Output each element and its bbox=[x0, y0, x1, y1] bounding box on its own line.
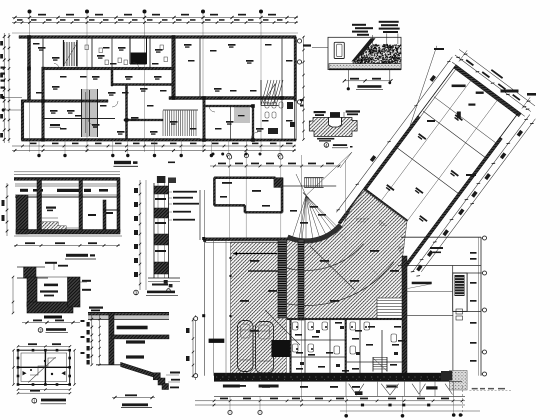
door arc a4 bbox=[251, 132, 258, 139]
wing extension line beyond right corner bbox=[522, 97, 530, 108]
D-pit interior text bbox=[44, 284, 58, 287]
P1 bottom-right junction blobs bbox=[287, 102, 293, 109]
D-gravel caption with underline bbox=[357, 85, 381, 88]
wall P1 step joint bbox=[22, 100, 109, 103]
wall P1 dark room walls around black block bbox=[129, 37, 131, 64]
D-square top dimension bbox=[18, 345, 70, 347]
P2 wall step vertical bbox=[244, 205, 246, 212]
top dimension line row 2 bbox=[12, 22, 298, 24]
stair S5 small treads bbox=[234, 108, 250, 122]
dimension text row 2 bbox=[17, 19, 23, 21]
wall P1 left-lower exterior bbox=[21, 100, 24, 140]
extension line above top wall bbox=[12, 32, 298, 34]
right vertical x478.5 thin bbox=[478, 237, 480, 376]
wing top dimension line 1 bbox=[455, 55, 531, 112]
fan arc outer outline bbox=[286, 227, 342, 244]
car outline 2 bbox=[256, 322, 274, 374]
wall P1 interior horizontal h1 bbox=[43, 67, 174, 70]
D-gravel label leader lines bbox=[372, 35, 374, 46]
D-gravel inner frame (drain channel) bbox=[334, 42, 344, 58]
labels under beam bbox=[223, 385, 240, 388]
D1 band text labels bbox=[57, 189, 81, 192]
shaft rect bbox=[453, 273, 467, 311]
wing left wall thin upper part bbox=[418, 66, 455, 116]
beam white speckle dashes bbox=[216, 376, 450, 378]
column blobs at wall junctions bbox=[27, 35, 31, 39]
D1 top slab lines bbox=[14, 171, 120, 173]
P2 stair comb S6 bbox=[304, 178, 322, 188]
D1 bottom dimension line bbox=[14, 245, 120, 247]
corridor door V mark 1 bbox=[349, 384, 364, 395]
P2 upper room texts bbox=[222, 182, 232, 184]
bottom grid bubbles of P1 bbox=[227, 153, 231, 157]
fan label bars bbox=[356, 218, 369, 220]
wall P1 interior vertical v3 bbox=[111, 70, 113, 86]
bottom dimension line 1 bbox=[195, 400, 465, 402]
D1 bottom slab line bbox=[14, 235, 122, 237]
car outline 1 bbox=[238, 321, 254, 372]
wing wall label bars near band bbox=[452, 85, 466, 88]
D-ramp top slab hatch strip bbox=[88, 313, 169, 315]
D-tall bottom dark squares bbox=[164, 280, 168, 283]
shaft connector vertical bbox=[452, 266, 454, 274]
garage left vertical lines bbox=[204, 238, 206, 375]
wall P1 bottom exterior right part bbox=[200, 139, 296, 141]
D-square left dimension bbox=[13, 350, 15, 384]
bottom grid bubbles bbox=[228, 410, 232, 414]
corridor small marks bbox=[238, 385, 246, 387]
wing room text marks bbox=[455, 114, 463, 121]
D-tall hatched wall segment 3 bbox=[154, 234, 169, 245]
garage left square ticks bbox=[202, 237, 205, 240]
wall P1 interior vertical v7 bbox=[252, 106, 254, 140]
wing right dimension line 1 bbox=[413, 115, 530, 272]
D-pit upper leaders and text bbox=[45, 262, 57, 264]
wall P1 top-band partition x112 bbox=[111, 37, 113, 69]
white room upper line bbox=[407, 291, 453, 293]
D-ramp sloped hatched band bbox=[121, 362, 154, 377]
hatch boundary tick blobs bbox=[229, 257, 231, 259]
D-ramp left dimension columns bbox=[91, 315, 93, 365]
wing top dimension line 2 bbox=[459, 49, 535, 106]
stair S3 treads (lower-middle stair) bbox=[163, 111, 196, 137]
door arc a3 bbox=[209, 106, 215, 112]
D1 upper band lines bbox=[15, 183, 120, 185]
diagonal wing plan group (rotated) bbox=[317, 34, 545, 280]
D4 label bars above-right bbox=[346, 110, 360, 112]
D-ramp top-left label bbox=[89, 307, 103, 309]
P2 room horizontal y357 bbox=[291, 356, 346, 358]
P2 room texts bbox=[295, 334, 302, 336]
outer arc r75 over hatch bbox=[283, 244, 364, 271]
D-pit inner lines bbox=[37, 276, 68, 278]
D-square stepped polyline bbox=[30, 358, 56, 375]
P2 stair S8 bbox=[373, 358, 387, 370]
D1 left dimension column bbox=[6, 183, 8, 236]
wing top exterior wall (hatched) bbox=[454, 65, 522, 117]
shaft dark stair bbox=[455, 275, 465, 296]
large diagonal-hatched floor region bbox=[231, 190, 408, 376]
P2 left boundary thin bbox=[199, 190, 201, 240]
wall P1 top-band partition x92 bbox=[91, 37, 93, 69]
wall P1 bottom exterior bbox=[22, 139, 201, 142]
wing longitudinal grid line s53 bbox=[382, 99, 499, 255]
D-gravel second reference with dot bbox=[389, 70, 391, 82]
fan thick curved wall (arc) bbox=[288, 225, 341, 241]
hatch leader line diag bbox=[310, 246, 355, 290]
fixture marks top rooms bbox=[85, 45, 88, 50]
bottom dimension line 2 with square ticks bbox=[195, 404, 465, 406]
bottom grid dots bbox=[344, 414, 348, 418]
plan margin marks near x195 bbox=[192, 318, 194, 378]
corridor door V mark 3 bbox=[412, 384, 426, 394]
D-square inner frame bbox=[21, 353, 67, 382]
D-square corner tick squares bbox=[17, 349, 20, 352]
D1 bottom slab hatched bbox=[16, 230, 120, 235]
stair S1 diagonal bbox=[65, 44, 77, 64]
bottom dimension texts bbox=[220, 398, 228, 400]
wing corner note text (global) bbox=[527, 93, 536, 96]
D-gravel stipple fill (gravel) bbox=[352, 45, 401, 66]
D-pit bottom dimension bbox=[22, 322, 80, 324]
door arc a5 bbox=[54, 64, 59, 69]
D-ramp right leaders bbox=[166, 374, 179, 376]
left grid dots of P1 bbox=[2, 96, 5, 99]
P2 bottom wall of upper rooms (thick) bbox=[205, 238, 288, 241]
wing right wall thin top part bbox=[500, 113, 518, 137]
right grid bubbles column bbox=[483, 236, 487, 240]
P2 wall mid horizontal bbox=[245, 211, 282, 213]
D-gravel label bars right group bbox=[379, 21, 399, 23]
wing right dimension line 2 bbox=[421, 119, 535, 272]
big white room borders right bbox=[407, 315, 453, 317]
D4 section number circle 4 bbox=[324, 143, 329, 148]
D1 caption with underline bbox=[66, 254, 88, 257]
wing longitudinal grid line s20 bbox=[355, 79, 472, 235]
P2 wall left of room A bbox=[213, 178, 215, 206]
corridor partition verticals bbox=[345, 381, 347, 396]
D-pit top lines bbox=[17, 266, 45, 268]
D-pit left wall bbox=[27, 277, 37, 307]
gray textured block right of beam bbox=[449, 371, 467, 391]
P2 room horizontal y340 bbox=[291, 339, 346, 341]
shaft lines y311 bbox=[453, 310, 481, 312]
bottom grid stems bbox=[229, 396, 231, 413]
vertical ladder wall 1 in hatch bbox=[278, 240, 287, 318]
corridor line y396.3 bbox=[214, 395, 465, 397]
hatch leader arrow 1 bbox=[237, 253, 277, 255]
faint dashed note right bbox=[469, 390, 512, 392]
D1 right wall 1 bbox=[79, 196, 83, 232]
hatch leader line diag 2 bbox=[265, 310, 300, 345]
wall P1 left-upper exterior bbox=[28, 36, 31, 101]
annex interior text bbox=[430, 247, 443, 249]
D1 mid vertical wall bbox=[37, 196, 42, 232]
thick black beam bottom bbox=[214, 373, 453, 381]
right column tick texts bbox=[470, 252, 477, 254]
corridor door V mark 2 bbox=[381, 384, 399, 395]
annex bottom line y265 bbox=[398, 265, 481, 267]
D-tall small circle in caption bbox=[167, 289, 171, 293]
P2 wall right vertical of upper rooms bbox=[281, 178, 283, 213]
wing transverse partition t55 thin bbox=[423, 111, 486, 158]
bottom dimension line row 1 of P1 bbox=[12, 145, 296, 147]
D1 interior room text bbox=[46, 207, 56, 209]
bottom dimension text row P1 bbox=[30, 143, 37, 145]
D4 grate dark mark bbox=[330, 112, 340, 117]
hatch region inner texts bbox=[250, 260, 259, 262]
stair S2 arrow bbox=[85, 92, 87, 133]
D4 drain channel white notch bbox=[329, 118, 342, 128]
wall P1 top-band partition x43 bbox=[42, 37, 44, 69]
D-gravel dark sloped wedge bbox=[351, 38, 375, 61]
wing left dimension line full bbox=[336, 57, 452, 213]
D1 interior step polyline bbox=[42, 222, 74, 231]
garage label black bar bbox=[209, 339, 225, 343]
wing transverse partition t100 thin bbox=[396, 147, 459, 194]
D4 underline bars below bbox=[317, 138, 334, 140]
left edge tiny row labels bbox=[1, 67, 6, 69]
hatch leader arrow 2 bbox=[248, 270, 283, 272]
D-tall hatched wall segment 1 bbox=[154, 186, 169, 194]
D-pit right wall bbox=[68, 277, 81, 307]
D-ramp vertical hatched column bbox=[109, 313, 114, 365]
D1 wall stub right1 bbox=[79, 178, 83, 196]
D1 top slab hatched strip bbox=[14, 178, 120, 180]
P2 left boundary dot bbox=[203, 239, 206, 242]
D-gravel vertical reference line with dot bbox=[347, 70, 349, 89]
annex top line y237 bbox=[401, 236, 481, 238]
bottom dimension line row 2 of P1 bbox=[12, 150, 296, 152]
D-ramp band text bbox=[117, 326, 148, 330]
D-square bottom dimensions bbox=[18, 389, 70, 391]
top dimension line row 1 bbox=[12, 17, 298, 19]
D-pit left dim column bbox=[12, 277, 14, 313]
D-ramp left outer text bars bbox=[81, 320, 85, 322]
P2 grid verticals thin bbox=[229, 156, 231, 240]
wall P1 interior horizontal h6 bbox=[124, 119, 163, 121]
D-pit bottom slab bbox=[27, 302, 73, 313]
D-tall hatched wall segment 4 bbox=[154, 262, 169, 274]
D4 left leader marks bbox=[300, 99, 304, 101]
D-gravel bottom bed strip bbox=[329, 64, 401, 69]
P2 room fixtures row bbox=[293, 322, 299, 330]
fan thin parallel arc bbox=[286, 229, 343, 246]
wall P1 interior vertical v9 thin bbox=[230, 106, 232, 139]
grid bubbles top row (filled) bbox=[28, 10, 32, 14]
white room note bar with leader bbox=[412, 282, 432, 285]
stair S4 escalator upper right bbox=[261, 80, 283, 106]
P2 room horizontal y362 bbox=[346, 361, 406, 363]
wing end note bars bbox=[434, 48, 444, 50]
D-square section arrow right bbox=[61, 371, 65, 375]
D1 wall stub right2 bbox=[117, 178, 120, 196]
D-gravel dimension line below bbox=[344, 80, 391, 82]
plan P2 group: lower-right main floor plan bbox=[194, 152, 513, 418]
detail D-pit: sump pit section bbox=[12, 262, 91, 333]
P2 room extra fixture dots bbox=[296, 326, 298, 328]
P2 wall thin upper right bbox=[282, 185, 336, 187]
door arc a6 bbox=[112, 101, 118, 107]
plan P1 group: upper-left basement floor plan bbox=[0, 10, 305, 167]
D1 wall stub top left bbox=[37, 178, 42, 196]
wing left dimension texts bbox=[430, 75, 436, 82]
P2 wall top exterior bbox=[214, 177, 275, 179]
P2 room vertical x290.5 bbox=[290, 319, 292, 376]
P2 room fixture marks dark bbox=[316, 330, 320, 333]
D-pit right leader text bbox=[82, 280, 91, 282]
D-square interior dots bbox=[44, 360, 46, 362]
plan P1 title text with underline bbox=[114, 161, 131, 164]
D1 extra interior lines bbox=[42, 217, 58, 219]
wing left wall hatched lower part bbox=[338, 116, 420, 224]
corridor boxed label bbox=[386, 385, 397, 388]
wall P1 interior vertical v1 bbox=[42, 67, 45, 139]
D1 mid horizontal wall right bbox=[103, 209, 120, 211]
dashed vertical right bbox=[462, 386, 464, 418]
P2 top grid bubbles bbox=[228, 155, 232, 159]
wall P1 interior vertical v6 bbox=[203, 98, 205, 141]
D-ramp top slab lines bbox=[88, 312, 169, 314]
P2 top dimension line bbox=[210, 165, 340, 167]
corridor black fixture bbox=[355, 391, 363, 395]
D-square section arrow left bbox=[23, 371, 27, 375]
P2 room vertical x360 bbox=[359, 319, 361, 376]
wall P1 top exterior bbox=[19, 36, 296, 39]
D-tall section circle 3 and caption bbox=[134, 290, 139, 295]
P2 room vertical x405.7 hatched boundary wall bbox=[402, 256, 407, 376]
dimension text row 1 bbox=[38, 14, 46, 16]
P2 room vertical x382 bbox=[381, 330, 383, 376]
small tick rows inside plan bbox=[94, 67, 96, 69]
detail D4: drainage trench section bbox=[300, 99, 360, 148]
fan radial lines bbox=[306, 196, 340, 230]
right boundary vertical x481 bbox=[480, 237, 482, 376]
P2 wall room A bottom bbox=[214, 204, 244, 206]
dark block left in gray zone bbox=[441, 371, 452, 381]
detail D-gravel: top-right wall/drainage section bbox=[303, 21, 402, 91]
D-ramp mid text 2 bbox=[126, 355, 144, 358]
P2 room vertical x345.7 (thick) bbox=[345, 319, 347, 376]
detail D-tall: narrow wall section bbox=[134, 176, 199, 295]
D-square mid horizontal wall bbox=[18, 366, 70, 368]
outer arc r110 over hatch bbox=[287, 262, 394, 306]
wall P1 interior vertical v4 (main) bbox=[172, 38, 176, 98]
detail D1: large basement wall section bbox=[2, 172, 123, 259]
D-square mid vertical wall bbox=[44, 350, 46, 384]
D-square section circle 1 and caption bbox=[32, 398, 37, 403]
left dimension column of plan P1 bbox=[3, 33, 5, 143]
horizontal-hatch band lower right of fan bbox=[377, 298, 406, 319]
wing top dimension texts bbox=[466, 59, 474, 66]
shaft lower small boxes bbox=[456, 309, 463, 314]
D-pit black bar below bbox=[44, 316, 62, 319]
D1 right wall 3 bbox=[117, 196, 120, 232]
D-square outer frame bbox=[18, 350, 70, 384]
wall P1 right border lower bbox=[294, 101, 296, 140]
diag leader to fan vertex bbox=[306, 152, 352, 196]
D-ramp stepped hatch going down bbox=[153, 373, 160, 380]
D1 right wall 2 bbox=[103, 200, 106, 230]
wall P1 interior horizontal h4 bbox=[112, 84, 174, 86]
D-tall dark caps at top bbox=[157, 176, 166, 183]
D-ramp caption with underline bbox=[122, 403, 148, 406]
P2 top dimension texts bbox=[218, 163, 226, 165]
P2 hatched column block bbox=[274, 178, 282, 188]
D4 label bars above-left bbox=[314, 111, 326, 113]
vertical ladder wall 2 in hatch bbox=[298, 240, 304, 320]
wing right wall end triangle marker bbox=[397, 247, 405, 255]
black equipment square in garage bbox=[271, 340, 291, 357]
black equipment block in plan P1 bbox=[131, 53, 146, 65]
D1 step hatch under bbox=[42, 222, 74, 234]
P2 rooms top wall y319 bbox=[287, 318, 406, 320]
D-tall hatched wall segment 2 bbox=[154, 208, 169, 218]
D-tall bottom lines bbox=[148, 277, 180, 279]
P2 room vertical x330 bbox=[329, 319, 331, 376]
D-tall inner texts bbox=[155, 198, 166, 200]
corridor door diag mark 4 bbox=[445, 384, 453, 395]
D-square diagonal line bbox=[28, 357, 55, 382]
wall P1 interior vertical v8 thin bbox=[281, 37, 283, 139]
corridor line y381.5 bbox=[214, 380, 462, 382]
wing right dimension texts bbox=[517, 130, 523, 137]
D-pit section circle 2 and caption bbox=[38, 328, 43, 333]
D-ramp bottom dimension bbox=[112, 397, 155, 399]
bottom grid dots of P1 bbox=[37, 154, 40, 157]
D-tall wall strip outlines bbox=[153, 183, 155, 278]
right dimension column of plan P1 bbox=[303, 36, 305, 140]
D4 caption dots and underline bbox=[333, 144, 347, 146]
stair S4 triangle bbox=[263, 84, 275, 103]
extra room text marks P1 bbox=[33, 43, 40, 45]
wall P1 interior horizontal h5 bbox=[204, 105, 253, 107]
fan leader arc small bbox=[340, 152, 352, 168]
wall P1 interior horizontal h7 bbox=[43, 118, 115, 120]
stair S2 treads (main stair) bbox=[82, 90, 98, 136]
D-tall right leader lines and texts bbox=[169, 191, 173, 193]
fan arc inner outline bbox=[288, 224, 338, 239]
detail D-ramp: ramp wall section bbox=[81, 307, 181, 408]
wall P1 interior horizontal h2 (main) bbox=[169, 97, 294, 100]
stair S1 treads (upper-left stair) bbox=[65, 42, 77, 66]
wall P1 interior vertical v5 thin bbox=[199, 37, 201, 98]
D1 left earth hatch wall bbox=[16, 195, 28, 234]
wall P1 interior vertical v10 bbox=[126, 85, 128, 140]
D-ramp hatched floor strip bbox=[111, 335, 169, 339]
wall P1 top-band partition x150 bbox=[149, 37, 151, 69]
wall P1 right border upper thick bbox=[294, 37, 296, 101]
corridor black bar label bbox=[426, 386, 437, 389]
left dim of garage zone bbox=[195, 315, 197, 380]
bottom dimension line 3 bbox=[340, 410, 480, 412]
P1 bottom-right room fixtures bbox=[265, 102, 269, 108]
fan long radial line 1 bbox=[306, 196, 381, 279]
D-gravel leader from left bbox=[312, 46, 328, 48]
D-square right dimension bbox=[74, 350, 76, 384]
wing transverse partition t153 (hatched, partial) bbox=[364, 189, 408, 223]
door arc a2 bbox=[133, 63, 139, 69]
P2 top grid dots bbox=[212, 153, 215, 156]
door arc a1 bbox=[88, 119, 95, 126]
wing transverse partition t37 thin bbox=[434, 97, 497, 144]
D-ramp mid text 1 bbox=[126, 340, 145, 343]
wing top wall outline ext bbox=[452, 62, 525, 116]
D-gravel label bars left group bbox=[352, 24, 366, 26]
D4 hatched concrete block bbox=[309, 118, 357, 137]
D-ramp floor line bbox=[96, 364, 121, 366]
fan long radial line 2 bbox=[296, 196, 306, 308]
